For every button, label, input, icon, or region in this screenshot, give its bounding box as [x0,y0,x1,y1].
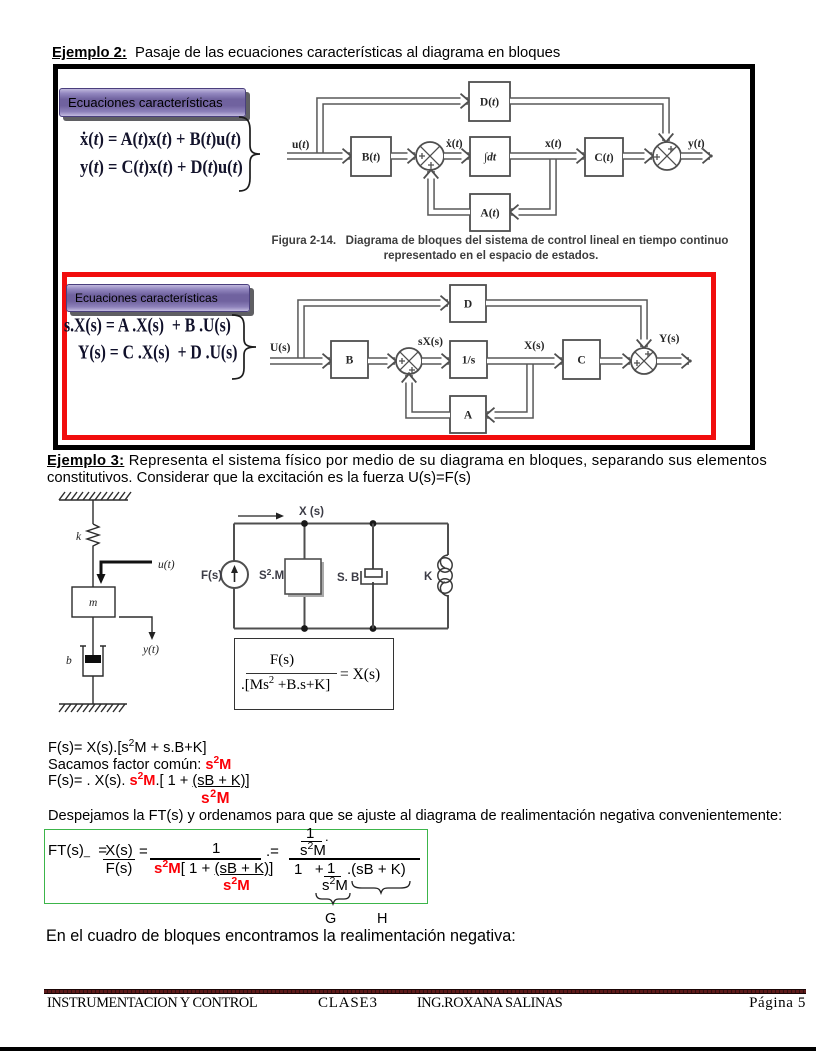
rod top [92,500,94,524]
block A [450,396,486,433]
force u(t) arrow [101,562,152,576]
block D(t) [469,82,510,121]
floor wall [59,703,127,705]
source branch wire [233,524,235,629]
svg-text:b: b [66,655,72,667]
damper symbol S.B [361,571,387,584]
red frame [62,272,716,440]
big black frame [53,64,755,450]
block C(t) [585,138,623,176]
mass m [72,587,115,617]
block diagram 2 (Laplace domain) [260,280,720,440]
rod to mass [92,548,94,587]
svg-text:ẋ(t): ẋ(t) [446,138,463,150]
G H labels [325,911,336,927]
block diagram 1 (continuous-time state space) [280,70,760,245]
svg-text:y(t): y(t) [688,138,705,150]
summing junction S1 [396,348,422,374]
fraction X(s)/F(s) [99,843,139,876]
wire C to sum2 [600,357,630,365]
figure caption 2-14 [265,235,735,247]
wire D to sum2 [486,303,644,347]
damper piston [85,655,101,663]
block C [563,340,600,379]
footer text [47,995,806,1012]
wire B(t) to sum1 [391,152,415,160]
svg-text:A(t): A(t) [480,208,499,220]
wire input U(s) [270,357,330,365]
svg-text:u(t): u(t) [292,139,309,151]
framed transfer formula [234,638,394,710]
text block [48,740,250,790]
block integrator [470,137,510,176]
wire sum1 to 1/s [422,357,449,365]
S2M branch wire [304,524,306,629]
spring k [87,524,99,548]
svg-text:B: B [346,355,354,367]
green formula box [44,829,428,904]
numerator mini fraction 1/s2M [306,826,314,841]
current direction arrow [238,515,278,517]
underbrace G [315,892,351,906]
paragraph Ejemplo 3 [47,453,807,486]
purple label 2 [66,284,250,312]
wire 1/s to C [487,357,562,365]
svg-text:S2.M: S2.M [259,567,284,582]
svg-text:K: K [424,571,433,583]
underbrace H [351,880,411,895]
wire sum2 output Y(s) [657,357,689,365]
purple label 1 [59,88,246,117]
bottom page line [0,1047,816,1051]
electrical analogy circuit [195,498,465,638]
block B(t) [351,137,391,176]
inductor K [440,555,448,596]
state equations (continuous) [80,129,241,149]
svg-text:F(s): F(s) [201,570,222,582]
wire sum2 output y(t) [681,152,710,160]
svg-text:X (s): X (s) [299,506,324,518]
svg-text:u(t): u(t) [158,559,175,571]
S.B branch wire [372,524,374,629]
svg-text:Y(s): Y(s) [659,333,680,345]
denominator: 1 + 1/s2M .(sB+K) [294,862,324,877]
fraction 2 main bar [289,858,420,860]
wire C(t) to sum2 [623,152,652,160]
svg-text:k: k [76,531,82,543]
brace 2 [231,314,259,380]
fraction 1: 1 over s2M[1+(sB+K)] [212,841,220,856]
footer rule [44,989,806,994]
rod bottom [92,676,94,704]
node dots [301,520,308,527]
svg-text:y(t): y(t) [142,644,159,656]
svg-text:B(t): B(t) [362,152,381,164]
mass block S2M [288,562,324,597]
svg-text:S. B: S. B [337,572,359,584]
summing junction S2 [653,142,681,170]
svg-text:D(t): D(t) [480,97,499,109]
top rail [234,523,448,525]
summing junction S2 [631,348,657,374]
wire B to sum1 [368,357,395,365]
svg-text:C(t): C(t) [594,152,613,164]
block B [331,341,368,378]
svg-text:m: m [89,597,97,609]
wire branch input node up to D(t) [320,101,468,156]
brace 1 [238,116,264,192]
wire A to sum1 [409,375,450,415]
bottom rail [234,628,448,630]
title Ejemplo 2 [52,45,560,61]
wire D(t) to sum2 [510,101,666,141]
wire branch input node up to D [301,303,448,361]
damper rod [92,617,94,658]
svg-text:A: A [464,410,473,422]
block A(t) [470,194,510,231]
svg-text:C: C [577,355,585,367]
wire sum1 to integrator [444,152,469,160]
block D [450,285,486,322]
svg-text:U(s): U(s) [270,342,291,354]
green box formula: FT(s) [48,843,107,860]
damper b cup [83,646,103,676]
svg-text:sX(s): sX(s) [418,336,443,348]
summing junction S1 [416,142,444,170]
block 1/s [450,341,487,378]
svg-text:D: D [464,299,472,311]
.= connector [266,844,279,859]
svg-text:∫dt: ∫dt [483,152,497,164]
laplace equations [64,317,231,337]
wire input u(t) [287,152,350,160]
current source F(s) [221,561,248,588]
ceiling wall [59,499,128,501]
K branch wire [447,524,449,629]
wire node down to A [487,361,530,415]
mechanical system diagram [55,488,185,723]
svg-text:X(s): X(s) [524,340,545,352]
wire A(t) to sum1 [431,171,470,212]
output y(t) arm [119,617,152,635]
wire node down to A(t) [511,156,553,212]
svg-text:x(t): x(t) [545,138,562,150]
svg-text:1/s: 1/s [462,355,476,367]
wire integrator to C(t) [510,152,584,160]
